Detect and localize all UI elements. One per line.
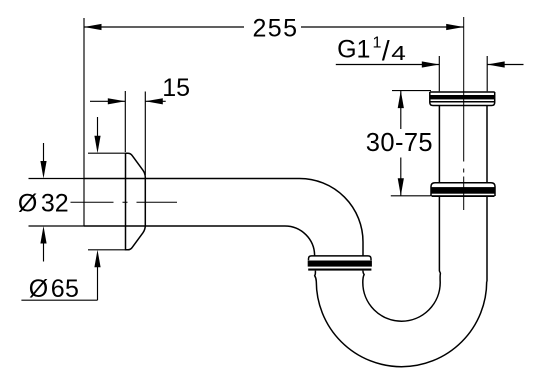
riser tube left wall (below lower nut): [439, 197, 440, 283]
svg-text:1: 1: [373, 34, 382, 51]
dimension D32: up arrow + tail: [43, 244, 45, 262]
upper nut (top fitting): [430, 92, 495, 106]
dimension 255: left arrow: [84, 24, 102, 30]
dimension D32: bottom extension line: [29, 225, 85, 227]
node: vertical riser centerline (dash-dot): [463, 17, 465, 210]
svg-text:32: 32: [41, 190, 69, 218]
riser tube right wall (below lower nut): [486, 197, 488, 282]
svg-text:G: G: [337, 36, 356, 64]
dimension G1 1/4: right line + arrow: [487, 64, 523, 66]
flange (wall escutcheon): [126, 153, 146, 250]
svg-text:Ø: Ø: [29, 275, 48, 303]
dimension 255: right arrow: [446, 24, 464, 30]
svg-text:255: 255: [253, 14, 299, 42]
svg-text:4: 4: [391, 42, 406, 65]
U-bend outer arc: [316, 282, 486, 367]
svg-text:65: 65: [51, 275, 80, 303]
dimension 30-75: arrows: [398, 91, 404, 109]
riser tube walls between nuts: [438, 106, 440, 182]
lower nut (bottom fitting): [431, 183, 495, 197]
dimension D32: top extension line: [29, 178, 85, 180]
dimension 255: dimension line: [84, 26, 244, 28]
svg-text:30-75: 30-75: [366, 129, 433, 157]
svg-text:Ø: Ø: [18, 190, 37, 218]
pipe: horizontal tube top edge + outer elbow: [84, 179, 363, 256]
dimension 15: dimension lines: [90, 100, 125, 102]
svg-text:/: /: [382, 35, 390, 66]
dimension D65: bottom extension line (flange bottom extended): [88, 249, 126, 251]
dimension D65: label underline: [21, 299, 97, 301]
pipe: horizontal tube bottom edge + inner elbow: [84, 226, 315, 256]
U-bend inner arc: [363, 283, 440, 322]
descending tube left wall below nut: [315, 271, 317, 282]
wire: left extension line + pipe left end (x=84): [83, 18, 85, 226]
node: horizontal pipe centerline (dash-dot): [71, 201, 178, 203]
dimension G1 1/4: leader + left arrow: [336, 64, 440, 66]
dimension D65: down arrow + tail: [97, 117, 99, 137]
dimension D32: down arrow + tail: [43, 143, 45, 162]
dimension 15: extension lines: [124, 91, 126, 152]
dimension 30-75: vertical dimension line: [400, 91, 402, 129]
dimension D65: top extension line (flange top edge extended): [88, 152, 126, 154]
svg-text:1: 1: [357, 36, 371, 64]
descending tube right wall below nut: [363, 271, 364, 283]
dimension 30-75: top extension line: [392, 90, 431, 92]
dimension 15: arrows: [108, 98, 126, 104]
dimension D65: up arrow + riser: [94, 250, 100, 267]
dimension 30-75: bottom extension line: [391, 195, 431, 197]
svg-text:15: 15: [162, 74, 190, 102]
riser tube walls above upper nut (G1 1/4 extension): [438, 56, 440, 91]
middle slip nut (on descending tube): [308, 256, 372, 271]
